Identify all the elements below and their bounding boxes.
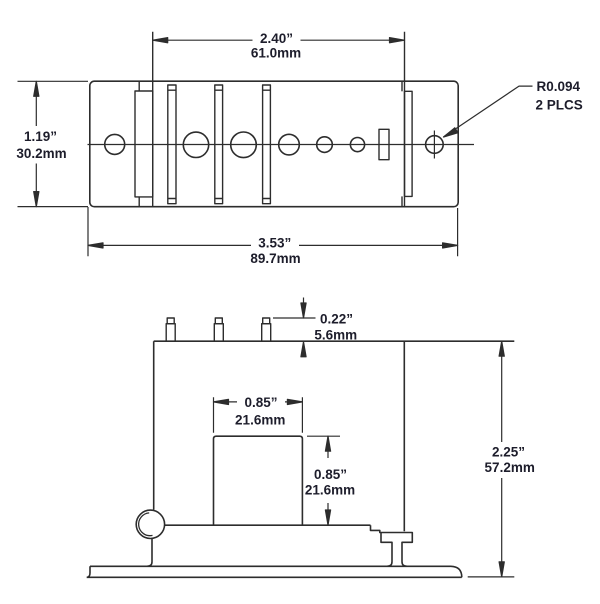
front view: base plate top edge and right rounded corner	[90, 566, 462, 577]
front view: right step and terminal boss	[371, 525, 413, 566]
top view: outer flange plate outline	[90, 81, 458, 207]
top view: rectangular aperture	[379, 129, 389, 159]
svg-text:0.85”: 0.85”	[244, 395, 277, 410]
front view: left mounting boss circle	[136, 510, 164, 538]
front view: body left edge	[153, 341, 155, 510]
top view: hole G (R0.094 radius, right)	[426, 136, 444, 154]
front view: body outline top edge with 2.25 extension	[154, 340, 515, 342]
top view: horizontal centerline	[88, 144, 475, 146]
front view: boss inner arc	[139, 513, 153, 536]
svg-text:0.22”: 0.22”	[320, 312, 353, 327]
front view: pin 3	[262, 318, 271, 341]
svg-text:2.40”: 2.40”	[260, 31, 293, 46]
svg-text:30.2mm: 30.2mm	[16, 146, 66, 161]
top view: slot 3	[263, 85, 271, 204]
svg-text:1.19”: 1.19”	[24, 129, 57, 144]
top view: hole G vertical centerline	[433, 131, 435, 159]
top view: hole B (large)	[183, 132, 208, 157]
svg-text:R0.094: R0.094	[537, 79, 581, 94]
top view: hole A (left small)	[105, 134, 125, 154]
front view: body bottom edge	[165, 524, 371, 526]
top view: right flange bottom step	[401, 196, 403, 206]
svg-text:57.2mm: 57.2mm	[485, 460, 535, 475]
top view: hole D (medium)	[279, 134, 300, 155]
svg-text:61.0mm: 61.0mm	[251, 45, 301, 60]
top view: body right edge with 2.40 extension line	[404, 32, 406, 207]
dimension 2.25in / 57.2mm	[468, 341, 515, 577]
top view: slot 1	[168, 85, 176, 204]
svg-text:2 PLCS: 2 PLCS	[536, 97, 583, 112]
svg-text:3.53”: 3.53”	[258, 236, 291, 251]
svg-text:2.25”: 2.25”	[492, 445, 525, 460]
top view: body left edge with 2.40 extension line	[152, 32, 154, 207]
front view: pin 2	[214, 318, 223, 341]
svg-text:0.85”: 0.85”	[314, 467, 347, 482]
front view: pin 1	[166, 318, 175, 341]
svg-text:89.7mm: 89.7mm	[250, 251, 300, 266]
dimension 3.53in / 89.7mm	[88, 207, 458, 256]
dimension 0.85in / 21.6mm horizontal	[214, 397, 303, 433]
front view: body right edge	[403, 341, 405, 531]
top view: hole E (small)	[317, 137, 333, 153]
top view: right clamp flange	[405, 91, 413, 196]
top view: right flange top step	[401, 81, 403, 91]
top view: hole C (large)	[231, 132, 257, 158]
front view: pedestal below boss	[147, 539, 152, 567]
front view: base plate left edge	[87, 566, 90, 577]
top view: left flange top step	[138, 81, 140, 91]
dimension 2.40in / 61.0mm	[153, 38, 405, 43]
top view: slot 2	[215, 85, 223, 204]
svg-text:21.6mm: 21.6mm	[235, 412, 285, 427]
front view: terminal boss left side	[381, 533, 392, 567]
front view: inner window recess	[214, 436, 303, 525]
svg-text:5.6mm: 5.6mm	[314, 327, 357, 342]
svg-text:21.6mm: 21.6mm	[305, 482, 355, 497]
top view: hole F (small)	[350, 138, 364, 152]
front view: base plate bottom edge	[87, 576, 462, 578]
top view: left clamp flange	[135, 91, 153, 197]
dimension 1.19in / 30.2mm	[18, 81, 89, 206]
dimension 0.22in / 5.6mm	[273, 298, 316, 358]
leader for R0.094 callout	[444, 86, 533, 137]
top view: left flange bottom step	[138, 197, 140, 207]
dimension 0.85in / 21.6mm vertical	[307, 436, 340, 525]
